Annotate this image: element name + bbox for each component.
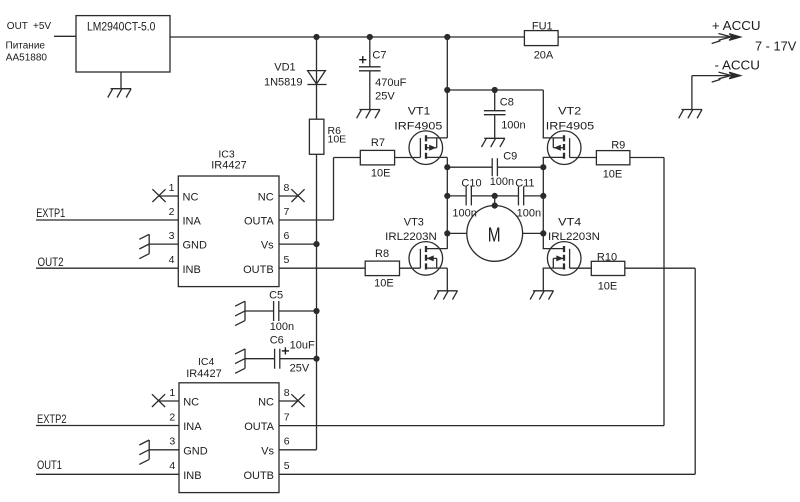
svg-text:R8: R8 — [375, 248, 389, 260]
svg-text:6: 6 — [284, 230, 290, 242]
svg-text:1: 1 — [169, 387, 175, 399]
svg-text:OUTB: OUTB — [243, 264, 274, 276]
svg-text:C10: C10 — [461, 178, 481, 190]
svg-text:5: 5 — [284, 460, 290, 472]
svg-text:100n: 100n — [452, 208, 476, 220]
ground — [235, 349, 245, 373]
svg-text:+5V: +5V — [33, 21, 51, 32]
svg-text:GND: GND — [183, 240, 208, 252]
svg-text:R9: R9 — [611, 140, 625, 152]
wire C8 to ground — [494, 115, 496, 138]
svg-text:INA: INA — [183, 421, 202, 433]
pin 8 IC4 NC wire — [279, 400, 298, 402]
wire -ACCU to ground — [692, 75, 733, 77]
wire ground to C6 — [245, 358, 275, 360]
wire ground to C5 — [245, 310, 274, 312]
wire R10 feedback to IC4 OUTB — [625, 267, 695, 269]
motor M — [494, 196, 496, 206]
svg-text:OUT2: OUT2 — [38, 257, 64, 269]
junction right C10 row — [540, 193, 546, 199]
svg-text:10E: 10E — [374, 277, 394, 289]
op-amp driver IC3 IR4427 — [178, 176, 279, 287]
svg-text:C9: C9 — [503, 150, 517, 162]
wire VT2 source up — [542, 90, 544, 138]
svg-text:25V: 25V — [290, 363, 310, 375]
svg-text:NC: NC — [258, 397, 274, 409]
svg-text:10E: 10E — [598, 280, 618, 292]
svg-text:4: 4 — [169, 254, 175, 266]
svg-text:25V: 25V — [375, 91, 395, 103]
junction Vs bus C5 — [313, 308, 319, 314]
junction y90 C8 — [492, 87, 498, 93]
ground — [235, 301, 245, 325]
svg-text:Vs: Vs — [261, 445, 274, 457]
resistor R9 10E — [596, 151, 630, 165]
ground — [679, 110, 702, 119]
junction rail-VT1 — [444, 34, 450, 40]
svg-text:VT2: VT2 — [558, 106, 581, 118]
capacitor C6 10uF 25V — [274, 349, 276, 369]
svg-text:OUTA: OUTA — [244, 421, 274, 433]
wire regulator ground stem — [120, 72, 122, 89]
pin 1 IC4 NC wire — [159, 400, 179, 402]
wire C9 row — [447, 166, 492, 168]
capacitor C10 100n — [465, 186, 467, 205]
svg-text:5: 5 — [284, 254, 290, 266]
svg-text:VT3: VT3 — [404, 217, 424, 229]
svg-text:20A: 20A — [534, 50, 554, 62]
svg-text:IRF4905: IRF4905 — [546, 120, 594, 132]
svg-text:3: 3 — [169, 230, 175, 242]
svg-text:INB: INB — [183, 264, 201, 276]
svg-text:R10: R10 — [597, 251, 617, 263]
svg-text:NC: NC — [258, 192, 274, 204]
wire VT1 drain down — [446, 158, 448, 249]
wire C5 to Vs bus — [279, 310, 317, 312]
wire VT4 source to ground — [542, 268, 544, 291]
wire VT3 source to ground — [446, 268, 448, 291]
svg-text:OUT: OUT — [7, 21, 28, 32]
ground — [139, 234, 149, 258]
wire rail down to VT1 — [446, 37, 448, 138]
junction rail-VD1 — [313, 34, 319, 40]
svg-text:8: 8 — [284, 182, 290, 194]
wire motor right terminal — [523, 232, 544, 234]
ground — [139, 440, 149, 464]
resistor R10 10E — [591, 261, 625, 275]
pin 8 IC3 NC wire — [279, 195, 298, 197]
svg-text:VT1: VT1 — [408, 106, 431, 118]
wire VT4 gate to R10 — [570, 267, 592, 269]
junction y90 left — [444, 87, 450, 93]
svg-text:IR4427: IR4427 — [186, 368, 221, 380]
junction VT2 drain C9 — [540, 164, 546, 170]
svg-text:IC4: IC4 — [198, 356, 215, 368]
ground — [530, 291, 553, 300]
wire IC3 OUTB to R8 — [279, 267, 365, 269]
op-amp driver IC4 IR4427 — [179, 383, 279, 493]
transistor VT3 IRL2203N — [409, 242, 443, 276]
junction motor right — [540, 230, 546, 236]
svg-text:IRL2203N: IRL2203N — [548, 231, 600, 243]
wire VD1 to R6 — [316, 85, 318, 120]
wire C6 to Vs bus — [280, 358, 317, 360]
svg-text:Питание: Питание — [6, 40, 46, 51]
svg-text:AA51880: AA51880 — [6, 53, 48, 64]
svg-text:EXTP1: EXTP1 — [36, 208, 65, 220]
wire C8 stem — [494, 90, 496, 110]
svg-text:OUTA: OUTA — [244, 216, 274, 228]
svg-text:C6: C6 — [270, 335, 284, 347]
wire R6 down Vs bus — [316, 154, 318, 450]
svg-text:R7: R7 — [371, 137, 385, 149]
svg-text:VT4: VT4 — [558, 217, 581, 229]
svg-text:7: 7 — [284, 411, 290, 423]
transistor VT4 IRL2203N — [547, 242, 581, 276]
svg-text:7 - 17V: 7 - 17V — [755, 40, 797, 54]
pin 3 IC4 GND wire — [149, 449, 179, 451]
pin 6 IC3 Vs wire — [279, 243, 317, 245]
svg-text:1: 1 — [169, 182, 175, 194]
ground — [482, 138, 505, 147]
resistor R6 10E — [309, 119, 324, 154]
svg-text:C11: C11 — [515, 178, 534, 190]
svg-text:2: 2 — [169, 206, 175, 218]
wire R8 to VT3 gate — [400, 267, 421, 269]
capacitor C8 100n — [484, 110, 506, 112]
svg-text:100n: 100n — [517, 208, 541, 220]
capacitor C5 100n — [273, 301, 275, 321]
transistor VT1 IRF4905 — [409, 131, 443, 165]
svg-text:- ACCU: - ACCU — [715, 59, 760, 73]
svg-text:6: 6 — [284, 436, 290, 448]
junction motor left — [444, 230, 450, 236]
svg-text:FU1: FU1 — [532, 20, 553, 32]
regulator U LM2940CT-5.0 — [76, 16, 170, 72]
svg-text:100n: 100n — [501, 119, 525, 131]
svg-text:10uF: 10uF — [290, 340, 315, 352]
wire C10 C11 row — [447, 195, 466, 197]
svg-text:10E: 10E — [371, 167, 391, 179]
junction Vs bus C6 — [313, 356, 319, 362]
svg-text:LM2940CT-5.0: LM2940CT-5.0 — [87, 20, 156, 34]
junction rail-C7 — [367, 34, 373, 40]
svg-text:IRL2203N: IRL2203N — [385, 231, 437, 243]
fuse FU1 20A — [524, 31, 558, 46]
svg-text:INB: INB — [183, 470, 201, 482]
svg-text:+ ACCU: + ACCU — [712, 19, 761, 33]
pin 3 IC3 GND wire — [149, 243, 178, 245]
ground — [434, 291, 457, 300]
svg-text:GND: GND — [183, 445, 208, 457]
svg-text:Vs: Vs — [261, 240, 274, 252]
pin 6 IC4 Vs wire — [279, 449, 317, 451]
svg-text:10E: 10E — [328, 134, 347, 146]
wire C7 to ground — [369, 71, 371, 110]
transistor VT2 IRF4905 — [547, 131, 581, 165]
wire rail to VD1 — [316, 37, 318, 85]
wire motor left terminal — [447, 232, 467, 234]
wire +5V rail — [170, 36, 524, 38]
svg-text:C5: C5 — [269, 289, 283, 301]
diode VD1 1N5819 — [308, 71, 326, 84]
ground — [108, 89, 131, 98]
junction Vs bus IC3 pin6 — [313, 241, 319, 247]
svg-text:C7: C7 — [372, 49, 386, 61]
pin 1 IC3 NC wire — [159, 195, 178, 197]
node + ACCU terminal — [712, 34, 741, 44]
junction VT1 drain C9 — [444, 164, 450, 170]
svg-text:10E: 10E — [603, 169, 623, 181]
wire R7 to VT1 gate — [395, 157, 421, 159]
wire R9 feedback to IC4 OUTA — [630, 157, 664, 159]
wire bridge top link — [447, 89, 543, 91]
svg-text:EXTP2: EXTP2 — [37, 414, 67, 426]
svg-text:100n: 100n — [270, 321, 294, 333]
svg-text:VD1: VD1 — [274, 62, 295, 74]
svg-text:3: 3 — [169, 436, 175, 448]
svg-text:470uF: 470uF — [375, 77, 406, 89]
svg-text:IRF4905: IRF4905 — [394, 120, 442, 132]
svg-text:OUT1: OUT1 — [37, 460, 62, 472]
svg-text:4: 4 — [169, 460, 175, 472]
svg-text:NC: NC — [183, 192, 199, 204]
svg-text:2: 2 — [169, 411, 175, 423]
svg-text:IR4427: IR4427 — [211, 159, 246, 171]
svg-text:8: 8 — [284, 387, 290, 399]
svg-text:INA: INA — [183, 216, 202, 228]
junction C10 row motor stub — [492, 193, 498, 199]
capacitor C7 470uF 25V — [359, 66, 381, 68]
wire input to regulator — [54, 35, 76, 37]
capacitor C9 100n — [491, 158, 493, 176]
wire VT2 gate to R9 — [570, 157, 597, 159]
svg-text:OUTB: OUTB — [243, 470, 274, 482]
capacitor C11 100n — [517, 186, 519, 205]
junction left C10 row — [444, 193, 450, 199]
svg-text:100n: 100n — [490, 176, 514, 188]
svg-text:C8: C8 — [500, 97, 514, 109]
ground — [357, 110, 380, 119]
resistor R7 10E — [360, 150, 394, 165]
svg-text:NC: NC — [183, 397, 199, 409]
resistor R8 10E — [365, 261, 399, 276]
wire rail to C7 — [369, 37, 371, 67]
wire VT2 drain down — [542, 158, 544, 249]
svg-text:M: M — [488, 224, 501, 247]
svg-text:7: 7 — [284, 206, 290, 218]
wire IC3 OUTA riser to R7 — [279, 219, 334, 221]
svg-text:1N5819: 1N5819 — [264, 76, 303, 88]
